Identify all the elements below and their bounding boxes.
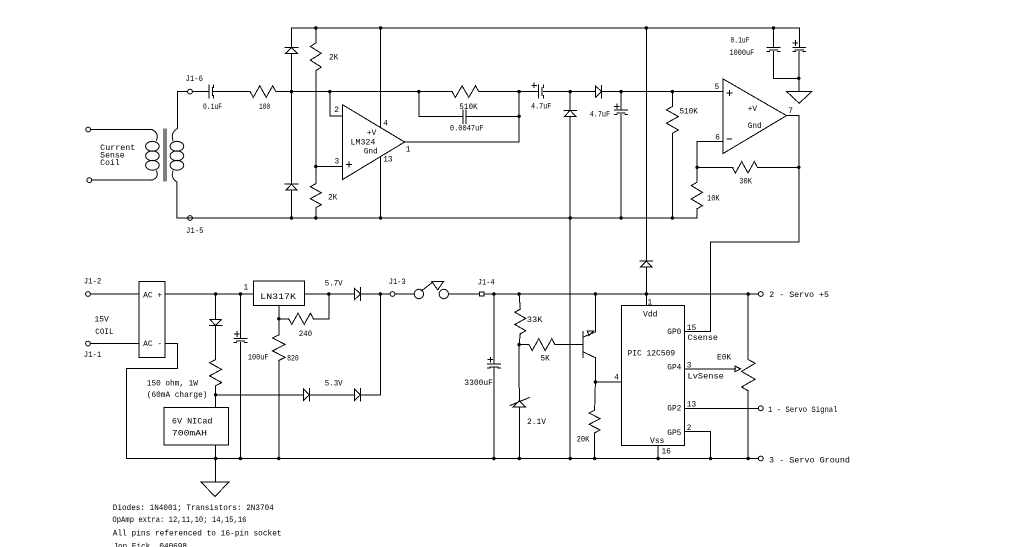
wire 10K bottom lead bbox=[696, 209, 698, 218]
wire zener bottom lead bbox=[518, 407, 520, 459]
label 5.3V bbox=[325, 380, 343, 388]
node: +5 rail bbox=[484, 293, 759, 295]
node: top +V rail bbox=[292, 27, 800, 29]
capacitor C4 4.7uF filter bbox=[615, 104, 628, 114]
svg-text:GP2: GP2 bbox=[667, 406, 681, 414]
wire clamp branch lower segment bbox=[291, 190, 293, 218]
junction pot on ground rail bbox=[747, 457, 750, 460]
junction U1 pin2 tap bbox=[328, 90, 331, 93]
svg-text:J1-3: J1-3 bbox=[389, 279, 406, 287]
svg-text:4: 4 bbox=[614, 375, 619, 383]
svg-text:AC +: AC + bbox=[143, 293, 162, 301]
terminal servo signal bbox=[758, 406, 763, 411]
wire J1-3 to switch bbox=[395, 293, 414, 295]
svg-text:7: 7 bbox=[788, 108, 793, 116]
wire AC+ output bbox=[165, 293, 253, 295]
wire J1-2 to AC+ bbox=[90, 293, 139, 295]
svg-text:30K: 30K bbox=[739, 179, 752, 187]
label pin 1 bbox=[406, 147, 411, 155]
resistor R3 2K lower bbox=[310, 184, 321, 208]
op-amp U2 plus input mark bbox=[727, 91, 732, 96]
wire 100uF top lead bbox=[239, 294, 241, 338]
wire pot bottom lead bbox=[747, 391, 749, 459]
svg-text:PIC 12C509: PIC 12C509 bbox=[628, 351, 676, 359]
junction on +V rail at 0.1uF cap bbox=[772, 26, 775, 29]
junction 20K on ground rail bbox=[593, 457, 596, 460]
label Gnd U2 bbox=[748, 123, 762, 131]
junction C4 on ground rail bbox=[619, 216, 622, 219]
wire Vss pin stub bbox=[657, 445, 659, 458]
wire switch to J1-4 bbox=[449, 293, 480, 295]
wire zener top lead bbox=[518, 345, 520, 401]
wire output node to C3 bbox=[519, 91, 538, 93]
wire ground tie lower bbox=[569, 218, 571, 459]
label J1-5 bbox=[186, 228, 204, 236]
transistor Q1 base bar bbox=[582, 332, 584, 358]
label 0.1uF bbox=[203, 104, 222, 112]
label 5.7V bbox=[325, 280, 343, 288]
junction Vss on ground rail bbox=[656, 457, 659, 460]
svg-text:GP0: GP0 bbox=[667, 329, 681, 337]
svg-text:J1-5: J1-5 bbox=[186, 228, 204, 236]
wire 5K to base bbox=[555, 344, 583, 346]
terminal J1-6 bbox=[188, 89, 193, 94]
svg-text:3 - Servo Ground: 3 - Servo Ground bbox=[769, 457, 850, 465]
svg-text:+V: +V bbox=[367, 130, 377, 138]
svg-text:2.1V: 2.1V bbox=[527, 419, 546, 427]
wire R1 to U1 input node bbox=[276, 91, 452, 93]
svg-text:510K: 510K bbox=[680, 109, 699, 117]
label 4.7uF filter bbox=[590, 111, 611, 119]
wire U2 feedback left segment bbox=[697, 166, 733, 168]
resistor R12 5K bbox=[529, 339, 555, 351]
pot wiper arrow bbox=[735, 366, 740, 371]
svg-text:Csense: Csense bbox=[688, 335, 719, 343]
wire C3 to clamp node bbox=[543, 91, 595, 93]
label 30K bbox=[739, 179, 752, 187]
diode D9 5.3V second bbox=[355, 389, 361, 402]
wire ground tie upper bbox=[569, 116, 571, 218]
svg-text:2: 2 bbox=[334, 107, 339, 115]
wire bypass bottom link bbox=[774, 77, 799, 79]
junction ground tie on bottom rail bbox=[569, 457, 572, 460]
terminal J1-4 bbox=[480, 292, 484, 296]
label AC + bbox=[143, 293, 162, 301]
svg-text:GP5: GP5 bbox=[667, 430, 681, 438]
label 700mAH bbox=[172, 431, 207, 439]
label 3 - Servo Ground bbox=[769, 457, 850, 465]
svg-text:J1-4: J1-4 bbox=[478, 280, 495, 288]
wire Vdd pin stub bbox=[645, 294, 647, 306]
svg-text:J1-2: J1-2 bbox=[84, 278, 102, 286]
wire between 5.3V diodes bbox=[310, 394, 355, 396]
label pin 6 bbox=[715, 135, 720, 143]
wire clamp branch upper segment bbox=[291, 28, 293, 47]
svg-text:2K: 2K bbox=[328, 195, 338, 203]
wire pot top lead bbox=[747, 294, 749, 360]
wire feedback lower loop right bbox=[466, 115, 519, 117]
label J1-3 bbox=[389, 279, 406, 287]
label 1 - Servo Signal bbox=[768, 407, 838, 415]
label pin 2 GP5 bbox=[687, 425, 692, 433]
wire 3300uF bottom lead bbox=[493, 368, 495, 458]
label pin 15 bbox=[687, 325, 697, 333]
svg-text:Vss: Vss bbox=[650, 438, 665, 446]
diode D8 5.3V first bbox=[304, 389, 310, 402]
svg-text:2 - Servo +5: 2 - Servo +5 bbox=[769, 292, 829, 300]
label GP5 bbox=[667, 430, 681, 438]
svg-text:LM324: LM324 bbox=[351, 140, 376, 148]
junction clamp branch on ground rail bbox=[290, 216, 293, 219]
note line 3 bbox=[113, 531, 282, 539]
wire Q1 emitter riser bbox=[594, 294, 596, 332]
wire 3300uF top lead bbox=[493, 294, 495, 364]
switch SW1 pole bbox=[414, 289, 423, 298]
resistor R7 10K gain bbox=[691, 182, 702, 209]
svg-text:Coil: Coil bbox=[100, 160, 120, 168]
junction zener on ground rail bbox=[518, 457, 521, 460]
capacitor C8 3300uF bbox=[488, 357, 501, 368]
svg-text:0.1uF: 0.1uF bbox=[731, 38, 750, 46]
label 100 bbox=[259, 104, 270, 112]
label E0K bbox=[717, 355, 731, 363]
svg-text:3300uF: 3300uF bbox=[464, 380, 493, 388]
junction feedback left tap bbox=[417, 90, 420, 93]
wire 5.3V battery line left bbox=[216, 394, 304, 396]
svg-text:100uF: 100uF bbox=[248, 355, 269, 363]
note line 1 bbox=[113, 505, 274, 513]
transformer T1 secondary winding bbox=[170, 129, 184, 219]
wire 5K left lead bbox=[519, 344, 529, 346]
svg-text:4: 4 bbox=[383, 121, 388, 129]
junction 5.3V riser at J1-3 bbox=[379, 292, 382, 295]
svg-text:4.7uF: 4.7uF bbox=[590, 111, 611, 119]
label 100uF bbox=[248, 355, 269, 363]
label LN317K bbox=[260, 294, 296, 302]
junction GP3 node bbox=[594, 380, 597, 383]
svg-text:+V: +V bbox=[748, 106, 758, 114]
label 20K bbox=[577, 437, 590, 445]
svg-text:150 ohm, 1W: 150 ohm, 1W bbox=[147, 380, 198, 388]
capacitor C1 0.1uF bbox=[209, 85, 214, 98]
label 510K feedback bbox=[459, 104, 478, 112]
label J1-2 bbox=[84, 278, 102, 286]
wire GP0 pin bbox=[685, 331, 711, 333]
label pin 1 Vdd bbox=[648, 300, 653, 308]
wire primary top lead bbox=[91, 129, 152, 131]
wire 820 bottom lead bbox=[278, 361, 280, 459]
label PIC 12C509 bbox=[628, 351, 676, 359]
wire U1 pin 3 stub bbox=[316, 166, 343, 168]
transistor Q1 collector bbox=[583, 352, 595, 358]
label J1-4 bbox=[478, 280, 495, 288]
wire 33K top lead bbox=[519, 294, 520, 309]
wire Csense routing bbox=[711, 167, 799, 331]
junction feedback at output bbox=[517, 115, 520, 118]
svg-text:OpAmp extra: 12,11,10; 14,15,: OpAmp extra: 12,11,10; 14,15,16 bbox=[112, 517, 246, 525]
label pin 13 bbox=[383, 157, 393, 165]
diode D5 supply isolation bbox=[640, 261, 653, 267]
wire GP5 pin bbox=[685, 432, 711, 459]
junction GP5 on ground rail bbox=[709, 457, 712, 460]
label 2K upper bbox=[329, 55, 339, 63]
label GP0 bbox=[667, 329, 681, 337]
svg-text:E0K: E0K bbox=[717, 355, 731, 363]
label pin 5 bbox=[715, 84, 720, 92]
wire Q1 collector drop bbox=[594, 358, 596, 382]
svg-text:0.0047uF: 0.0047uF bbox=[450, 126, 484, 134]
junction on +V rail at 2K divider bbox=[314, 26, 317, 29]
wire U2 feedback right segment bbox=[757, 166, 798, 168]
junction on +V rail at op-amp U1 pin 4 bbox=[379, 26, 382, 29]
wire primary bottom lead bbox=[92, 179, 152, 181]
wire 2K divider bottom lead bbox=[315, 208, 317, 218]
label pin 3 bbox=[335, 159, 340, 167]
label 240 bbox=[299, 331, 313, 339]
wire to J1-6 bbox=[177, 91, 187, 93]
label 150 ohm 1W bbox=[147, 380, 198, 388]
diode D3 clamp at detector bbox=[564, 92, 577, 117]
label Vss bbox=[650, 438, 665, 446]
transistor Q1 emitter bbox=[583, 331, 595, 337]
junction battery node bbox=[214, 393, 217, 396]
junction transistor emitter on +5 bbox=[594, 292, 597, 295]
junction pot top on +5 bbox=[747, 292, 750, 295]
wire regulator adj riser bbox=[278, 306, 280, 335]
label 2 - Servo +5 bbox=[769, 292, 829, 300]
switch SW1 throw bbox=[439, 289, 448, 298]
svg-text:LN317K: LN317K bbox=[260, 294, 296, 302]
capacitor C3 4.7uF coupling bbox=[532, 83, 543, 98]
label 3300uF bbox=[464, 380, 493, 388]
diode D2 clamp to ground bbox=[285, 184, 298, 190]
wire 2K divider top lead bbox=[315, 28, 317, 43]
wire 510K feedback to output node bbox=[479, 91, 519, 93]
resistor R9 240 bbox=[289, 313, 314, 324]
ground symbol main bbox=[201, 459, 229, 497]
wire feedback lower loop left bbox=[419, 92, 463, 117]
junction divider node bbox=[517, 343, 520, 346]
svg-text:(60mA charge): (60mA charge) bbox=[147, 392, 208, 400]
svg-text:820: 820 bbox=[287, 356, 299, 364]
wire GP4 pin bbox=[685, 368, 736, 370]
switch SW1 lever bbox=[421, 281, 444, 291]
resistor R8 150 ohm bbox=[210, 360, 222, 386]
label 2.1V bbox=[527, 419, 546, 427]
wire 510K bleed bottom lead bbox=[671, 133, 673, 218]
label 10K bbox=[707, 196, 720, 204]
terminal J1-1 bbox=[86, 341, 91, 346]
label J1-1 bbox=[84, 352, 102, 360]
label pin 13 bbox=[687, 402, 697, 410]
svg-text:1: 1 bbox=[648, 300, 653, 308]
op-amp U1 LM324 triangle bbox=[343, 105, 405, 180]
resistor R13 20K bbox=[589, 410, 600, 433]
terminal J1-5 bbox=[188, 216, 193, 221]
svg-text:1000uF: 1000uF bbox=[730, 50, 755, 58]
wire C4 top lead bbox=[620, 92, 622, 111]
svg-text:Vdd: Vdd bbox=[643, 312, 658, 320]
IC U4 PIC 12C509 box bbox=[621, 306, 684, 446]
svg-text:COIL: COIL bbox=[95, 329, 114, 337]
wire 1000uF bottom lead bbox=[798, 52, 800, 79]
junction 3300uF on ground rail bbox=[492, 457, 495, 460]
svg-text:5.3V: 5.3V bbox=[325, 380, 343, 388]
junction adj node bbox=[277, 317, 280, 320]
wire J1-1 to AC- bbox=[90, 343, 139, 345]
junction U1 gnd stub on rail bbox=[379, 216, 382, 219]
svg-text:33K: 33K bbox=[527, 317, 543, 325]
wire battery top lead bbox=[215, 386, 217, 408]
junction charge branch tap bbox=[214, 292, 217, 295]
svg-text:6V NICad: 6V NICad bbox=[172, 418, 213, 426]
label Gnd U1 bbox=[364, 149, 378, 157]
wire battery bottom lead bbox=[215, 445, 217, 458]
label +V U1 bbox=[367, 130, 377, 138]
regulator U3 LN317K box bbox=[253, 281, 304, 306]
wire +V to +5 link lower bbox=[645, 267, 647, 294]
junction battery on ground rail bbox=[214, 457, 217, 460]
op-amp U2 minus input mark bbox=[727, 138, 732, 140]
junction 820 on ground rail bbox=[277, 457, 280, 460]
wire 20K bottom lead bbox=[594, 433, 596, 459]
op-amp U1 plus input mark bbox=[347, 162, 352, 167]
label 6V NICad bbox=[172, 418, 213, 426]
battery BT1 box bbox=[164, 408, 228, 446]
wire D4 to filter node bbox=[602, 91, 723, 93]
terminal primary bottom bbox=[87, 178, 92, 183]
svg-text:2K: 2K bbox=[329, 55, 339, 63]
label COIL bbox=[95, 329, 114, 337]
wire U2 output bbox=[787, 116, 799, 168]
junction clamp node bbox=[569, 90, 572, 93]
svg-text:J1-1: J1-1 bbox=[84, 352, 102, 360]
resistor R5 510K bleed bbox=[666, 107, 678, 134]
note line 4 author bbox=[113, 544, 187, 547]
junction 2K lower on ground rail bbox=[314, 216, 317, 219]
rectifier BR1 block bbox=[139, 281, 165, 357]
junction 3300uF on +5 bbox=[492, 292, 495, 295]
wire 5.3V riser bbox=[361, 294, 381, 395]
wire regulator output bbox=[305, 293, 355, 295]
label 5K bbox=[541, 355, 551, 363]
wire charge diode top lead bbox=[215, 294, 217, 320]
diode D4 detector series bbox=[596, 85, 602, 98]
label 4.7uF coupling bbox=[531, 104, 552, 112]
svg-text:15V: 15V bbox=[95, 316, 110, 324]
label GP4 bbox=[667, 365, 681, 373]
label Csense bbox=[688, 335, 719, 343]
svg-text:3: 3 bbox=[335, 159, 340, 167]
wire 0.1uF bypass top lead bbox=[773, 28, 775, 47]
resistor R1 100 bbox=[250, 86, 276, 98]
label pin 4 bbox=[383, 121, 388, 129]
label 60mA charge bbox=[147, 392, 208, 400]
resistor R4 510K feedback bbox=[452, 86, 479, 98]
junction bypass ground node bbox=[797, 77, 800, 80]
wire clamp branch middle segment bbox=[291, 53, 293, 184]
resistor R11 33K bbox=[515, 309, 526, 334]
label 510K bleed bbox=[680, 109, 699, 117]
label pin 2 bbox=[334, 107, 339, 115]
svg-text:Gnd: Gnd bbox=[748, 123, 762, 131]
junction U2 output feedback bbox=[797, 166, 800, 169]
wire U1 pin 2 stub bbox=[330, 92, 343, 116]
label 0.0047uF bbox=[450, 126, 484, 134]
junction divider midpoint to U1 pin3 bbox=[314, 165, 317, 168]
svg-text:240: 240 bbox=[299, 331, 313, 339]
label pin 7 bbox=[788, 108, 793, 116]
junction ground tie on top rail bbox=[569, 216, 572, 219]
junction 510K bleed on ground rail bbox=[671, 216, 674, 219]
svg-text:20K: 20K bbox=[577, 437, 590, 445]
wire GP2 pin bbox=[685, 407, 759, 409]
capacitor C5 0.1uF bypass bbox=[767, 47, 780, 51]
label 15V bbox=[95, 316, 110, 324]
label 33K bbox=[527, 317, 543, 325]
diode D6 charge bbox=[209, 320, 222, 326]
svg-text:1 - Servo Signal: 1 - Servo Signal bbox=[768, 407, 838, 415]
wire C1 to R1 bbox=[214, 91, 250, 93]
note line 2 bbox=[112, 517, 246, 525]
wire U1 pin 4 supply stub bbox=[380, 28, 382, 127]
wire U1 pin 13 ground stub bbox=[380, 157, 382, 218]
junction 100uF tap bbox=[239, 292, 242, 295]
svg-text:4.7uF: 4.7uF bbox=[531, 104, 552, 112]
capacitor C6 1000uF reservoir bbox=[793, 41, 806, 52]
wire 240 left lead bbox=[279, 318, 289, 320]
capacitor C7 100uF bbox=[234, 332, 247, 343]
node: top-section ground rail bbox=[177, 217, 697, 219]
wire 10K top lead bbox=[696, 167, 698, 181]
svg-text:Jon Fick, 040698: Jon Fick, 040698 bbox=[113, 544, 187, 547]
resistor R2 2K upper bbox=[310, 43, 321, 71]
terminal servo ground bbox=[758, 456, 763, 461]
wire 2K divider middle bbox=[315, 71, 317, 184]
terminal servo +5 bbox=[758, 292, 763, 297]
resistor R6 30K feedback bbox=[732, 162, 757, 173]
svg-text:10K: 10K bbox=[707, 196, 720, 204]
label GP2 bbox=[667, 406, 681, 414]
wire 100uF bottom lead bbox=[239, 343, 241, 459]
terminal primary top bbox=[86, 127, 91, 132]
ground symbol op-amp supply bbox=[787, 78, 812, 103]
junction clamp branch on signal wire bbox=[290, 90, 293, 93]
wire D7 to J1-3 bbox=[361, 293, 391, 295]
label Vdd bbox=[643, 312, 658, 320]
svg-text:1: 1 bbox=[244, 285, 249, 293]
wire 33K to node bbox=[519, 334, 520, 345]
wire U2 pin 6 stub bbox=[697, 141, 723, 167]
label AC - bbox=[143, 341, 162, 349]
svg-text:5.7V: 5.7V bbox=[325, 280, 343, 288]
terminal J1-3 bbox=[390, 292, 395, 297]
wire AC- route bbox=[127, 344, 178, 459]
junction 33K on +5 bbox=[517, 292, 520, 295]
junction output on signal wire bbox=[517, 90, 520, 93]
svg-text:AC -: AC - bbox=[143, 341, 162, 349]
svg-text:5: 5 bbox=[715, 84, 720, 92]
label 1000uF bbox=[730, 50, 755, 58]
svg-text:All pins referenced to 16-pin: All pins referenced to 16-pin socket bbox=[113, 531, 282, 539]
diode D1 clamp to +V bbox=[285, 47, 298, 53]
wire U1 output bbox=[405, 141, 519, 143]
svg-text:0.1uF: 0.1uF bbox=[203, 104, 222, 112]
svg-text:GP4: GP4 bbox=[667, 365, 681, 373]
svg-text:LvSense: LvSense bbox=[688, 373, 725, 381]
junction 100uF on ground rail bbox=[239, 457, 242, 460]
label 0.1uF bypass bbox=[731, 38, 750, 46]
